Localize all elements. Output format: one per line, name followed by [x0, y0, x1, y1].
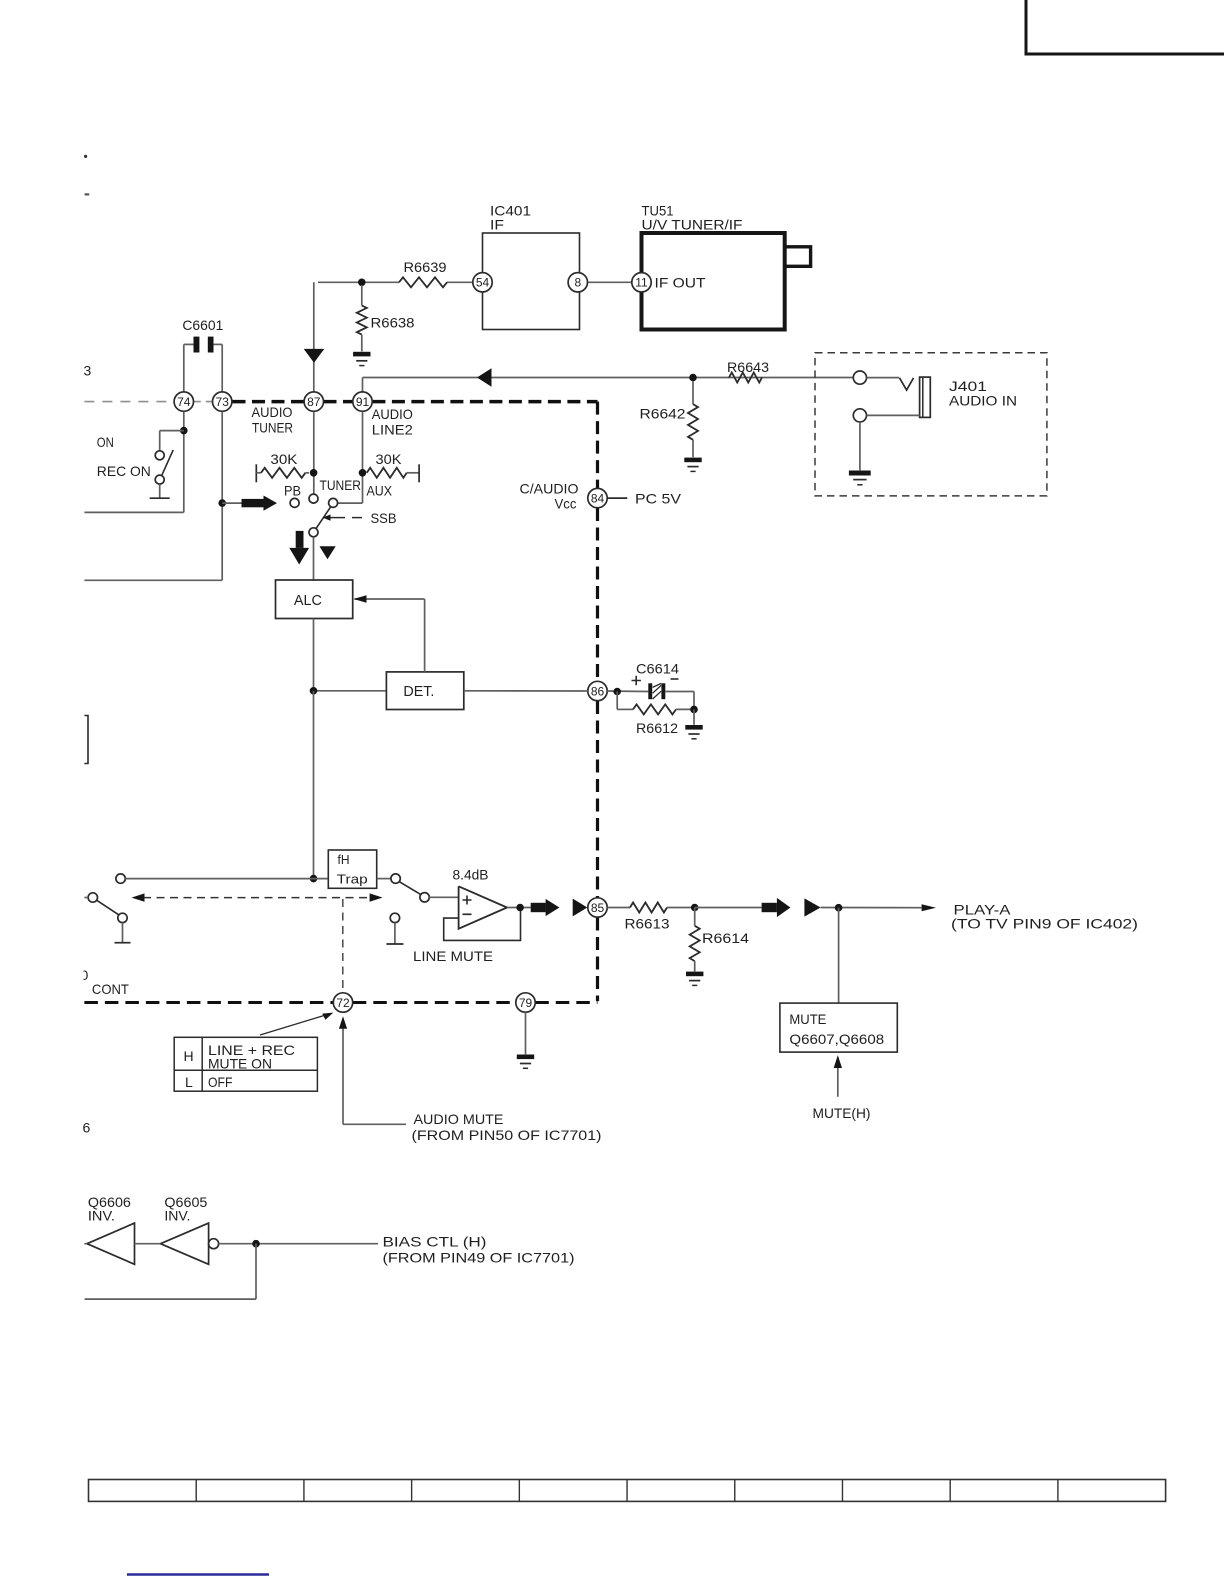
wire pin 84 to PC 5V: [608, 491, 682, 507]
capacitor C6601: [182, 317, 223, 392]
wire to PLAY-A: [821, 907, 922, 909]
J401 plug tip symbol (V): [867, 378, 914, 390]
resistor R6643: [727, 359, 769, 383]
svg-text:8: 8: [574, 276, 581, 290]
wire pin 91 to AUX contact: [338, 412, 363, 504]
wire AUDIO MUTE to pin 72: [339, 1016, 406, 1124]
pin 11 of TU51 (IF OUT): [632, 273, 706, 292]
svg-text:PC 5V: PC 5V: [635, 491, 682, 507]
wire to op-amp input: [429, 896, 458, 898]
left bypass switch: [84, 893, 130, 943]
svg-text:ALC: ALC: [294, 593, 322, 609]
svg-text:TUNER: TUNER: [320, 477, 362, 493]
signal flow thick arrow into ALC: [289, 531, 309, 565]
svg-text:TUNER: TUNER: [252, 420, 293, 436]
svg-text:R6614: R6614: [702, 930, 749, 946]
wire DET to pin 86: [464, 690, 588, 692]
wire pin 87 to TUNER contact: [313, 412, 315, 494]
cut-off bracket at left edge: [84, 716, 88, 764]
dashed record-path arrow line: [132, 893, 383, 901]
signal flow thick arrow to output: [762, 898, 791, 917]
transistor Q6606 inverter: [84, 1194, 134, 1264]
wire ALC to DET line: [314, 619, 387, 691]
cut-off character 3: [84, 363, 92, 379]
block ALC: [276, 580, 353, 619]
svg-text:85: 85: [591, 901, 605, 915]
SSB pointer: [323, 510, 397, 526]
svg-text:79: 79: [519, 996, 533, 1010]
svg-text:MUTE(H): MUTE(H): [813, 1105, 871, 1121]
wire pin8 to pin11: [588, 281, 633, 283]
svg-text:AUDIO IN: AUDIO IN: [949, 393, 1017, 409]
selector contact PB: [290, 498, 299, 507]
svg-text:R6613: R6613: [625, 916, 670, 932]
J401 wiring: [860, 415, 920, 470]
wire C6614 to ground node: [665, 692, 694, 710]
cut-off character near CONT: [76, 964, 89, 984]
connector J401 dashed box: [815, 353, 1047, 496]
J401 jack body: [920, 377, 931, 417]
wire BIAS CTL net: [219, 1243, 378, 1245]
signal flow arrow toward pin 91: [477, 368, 492, 386]
svg-text:REC ON: REC ON: [97, 463, 151, 479]
svg-text:6: 6: [83, 1120, 91, 1136]
wire ALC/DET node down to trap line: [313, 691, 315, 879]
node junction at op-amp output: [516, 904, 524, 912]
resistor R6613: [625, 903, 695, 932]
feedback wire DET to ALC: [355, 599, 425, 672]
pin 85: [588, 898, 607, 917]
svg-text:SSB: SSB: [371, 510, 397, 526]
svg-text:C6601: C6601: [182, 317, 223, 333]
wire to mute node: [695, 907, 762, 909]
svg-text:(FROM PIN50 OF IC7701): (FROM PIN50 OF IC7701): [412, 1127, 602, 1143]
signal flow small arrow to pin 85: [573, 899, 588, 917]
cut-off character 6: [83, 1120, 91, 1136]
line mute lower contact: [386, 913, 403, 944]
svg-text:30K: 30K: [376, 451, 403, 467]
line mute switch wiper: [399, 882, 429, 902]
wire between inverters: [135, 1243, 161, 1245]
svg-text:PB: PB: [284, 483, 301, 499]
thin dashed stub left of pin 74: [84, 401, 174, 403]
block MUTE Q6607,Q6608: [780, 1003, 897, 1052]
signal flow arrow into pin 87: [304, 349, 325, 363]
wire BIAS CTL branch down-left: [85, 1244, 256, 1299]
net label MUTE(H): [813, 1105, 871, 1121]
revision table (bottom): [89, 1480, 1166, 1502]
J401 jack tip contact: [853, 371, 866, 384]
resistor 30K (AUX side): [367, 451, 419, 482]
tuner TU51 box: [642, 203, 785, 330]
ground at J401: [849, 471, 871, 485]
block DET: [386, 672, 463, 710]
svg-text:MUTE ON: MUTE ON: [208, 1056, 272, 1072]
net label BIAS CTL: [383, 1234, 575, 1266]
TU51 connector tab: [785, 247, 811, 266]
svg-text:30K: 30K: [270, 451, 298, 467]
arrowhead PLAY-A: [922, 904, 936, 911]
node junction at pin 86 net: [613, 688, 621, 696]
pin 84 (C/AUDIO Vcc): [520, 481, 608, 512]
node junction above MUTE block: [835, 904, 843, 912]
svg-text:LINE2: LINE2: [372, 422, 413, 438]
wire to MUTE block: [838, 908, 840, 1003]
C/AUDIO hybrid IC dashed boundary top edge: [233, 400, 598, 404]
net label PLAY-A: [951, 902, 1138, 932]
svg-text:AUDIO: AUDIO: [372, 406, 413, 422]
svg-text:86: 86: [591, 684, 605, 698]
ground at pin 79: [517, 1055, 534, 1069]
svg-text:INV.: INV.: [88, 1208, 115, 1224]
wire pole to ALC: [313, 537, 315, 580]
wire AUDIO LINE2 net to J401: [363, 378, 854, 393]
block fH Trap: [328, 850, 376, 888]
pin 74: [174, 392, 193, 411]
op-amp 8.4dB line amplifier: [453, 867, 508, 929]
svg-text:ON: ON: [97, 434, 114, 450]
node junction on pin74 branch: [180, 427, 188, 435]
pin 86: [588, 681, 607, 700]
svg-text:(TO TV PIN9 OF IC402): (TO TV PIN9 OF IC402): [951, 916, 1138, 932]
signal flow thick arrow to PB: [222, 496, 277, 511]
node junction on trap line: [310, 875, 318, 883]
svg-text:AUDIO: AUDIO: [252, 404, 293, 420]
pin 8 of IC401: [568, 273, 587, 292]
dashed branch to pin 72: [342, 899, 344, 993]
svg-text:73: 73: [216, 395, 230, 409]
signal flow thick arrow to pin 85: [531, 899, 560, 916]
wire pin 79 to ground: [525, 1012, 527, 1054]
pin 72: [333, 993, 352, 1012]
pin 91 (AUDIO LINE2): [353, 392, 413, 438]
transistor Q6605 inverter: [161, 1194, 219, 1264]
trap line left contact: [116, 874, 328, 883]
selector contact SSB (pole): [309, 528, 318, 537]
svg-text:H: H: [184, 1048, 194, 1064]
signal flow small arrow to output: [804, 898, 820, 916]
node junction right 30K: [359, 469, 367, 477]
blue footer line: [127, 1573, 269, 1575]
signal flow small arrow into ALC: [319, 546, 335, 559]
svg-text:Vcc: Vcc: [555, 496, 577, 512]
svg-text:Trap: Trap: [337, 872, 368, 887]
resistor R6639: [399, 259, 447, 287]
node junction under ALC: [310, 687, 318, 695]
resistor R6638: [357, 285, 415, 351]
svg-text:DET.: DET.: [403, 684, 434, 700]
svg-text:91: 91: [356, 395, 370, 409]
selector labels: [284, 477, 393, 499]
node junction on BIAS CTL: [252, 1240, 260, 1248]
ground at R6638: [353, 352, 370, 366]
svg-text:BIAS CTL (H): BIAS CTL (H): [383, 1234, 487, 1250]
truth table H/L for mute: [174, 1037, 317, 1091]
svg-text:OFF: OFF: [208, 1074, 233, 1090]
svg-text:U/V TUNER/IF: U/V TUNER/IF: [642, 217, 743, 233]
pointer from table to pin 72: [260, 1013, 333, 1035]
IC IC401 (IF) box: [483, 203, 580, 330]
svg-text:MUTE: MUTE: [789, 1011, 826, 1027]
node junction left 30K: [310, 469, 318, 477]
node junction at R6614 top: [691, 904, 699, 912]
node junction on pin73 branch: [218, 499, 226, 507]
MUTE(H) input arrow: [834, 1055, 842, 1097]
ground at R6612: [685, 709, 702, 738]
svg-text:R6643: R6643: [727, 359, 769, 375]
stray page mark dot: [84, 155, 87, 158]
svg-text:87: 87: [307, 395, 321, 409]
pin 54 of IC401: [473, 273, 492, 292]
svg-text:LINE MUTE: LINE MUTE: [413, 948, 493, 964]
wire pin 86 to C6614: [607, 690, 648, 693]
wire pin 85 to R6613: [607, 907, 630, 909]
svg-text:AUX: AUX: [367, 483, 393, 499]
pin 73: [213, 392, 232, 411]
resistor R6642: [640, 381, 699, 457]
svg-text:Q6607,Q6608: Q6607,Q6608: [789, 1031, 884, 1047]
svg-text:IF OUT: IF OUT: [655, 275, 706, 291]
ground at R6614: [686, 972, 703, 986]
svg-text:84: 84: [591, 491, 605, 505]
node junction at R6642 top: [689, 374, 697, 382]
wire pin 74 to pin 73: [194, 401, 213, 403]
node junction at R6638 top: [358, 279, 366, 287]
wire pin54 net (junction to R6639 to pin54): [318, 281, 473, 283]
selector contact AUX: [329, 498, 338, 507]
svg-text:C6614: C6614: [636, 661, 679, 677]
resistor R6612: [617, 692, 694, 737]
arrowhead into ALC: [354, 595, 367, 603]
svg-text:INV.: INV.: [164, 1208, 190, 1224]
selector contact TUNER: [309, 494, 318, 503]
svg-text:C/AUDIO: C/AUDIO: [520, 481, 579, 497]
C/AUDIO hybrid IC dashed boundary bottom edge: [84, 1001, 597, 1004]
text CONT: [92, 981, 129, 997]
pin 79: [516, 993, 535, 1012]
title block corner box (page corner): [1026, 0, 1224, 54]
svg-text:8.4dB: 8.4dB: [453, 867, 489, 883]
J401 jack ring contact: [853, 409, 866, 422]
capacitor C6614 (electrolytic): [632, 661, 680, 700]
wire junction to pin 87: [313, 282, 315, 392]
trap line right contact: [377, 874, 401, 883]
svg-text:IF: IF: [490, 217, 504, 233]
svg-text:11: 11: [635, 276, 648, 290]
wire pin 74 branch: [84, 412, 183, 513]
node junction at R6612 right: [690, 706, 698, 714]
C/AUDIO hybrid IC dashed boundary right edge: [596, 402, 599, 1002]
feedback loop LINE MUTE: [413, 908, 521, 965]
resistor 30K (PB side): [256, 451, 309, 482]
svg-text:L: L: [185, 1074, 193, 1090]
svg-text:72: 72: [336, 996, 350, 1010]
net label AUDIO MUTE: [412, 1111, 602, 1143]
svg-text:fH: fH: [338, 852, 350, 867]
svg-text:AUDIO MUTE: AUDIO MUTE: [414, 1111, 504, 1127]
ground at R6642: [684, 458, 701, 472]
svg-text:R6638: R6638: [371, 315, 415, 331]
svg-text:74: 74: [177, 395, 191, 409]
svg-text:54: 54: [476, 276, 490, 290]
svg-text:CONT: CONT: [92, 981, 129, 997]
svg-text:3: 3: [84, 363, 92, 379]
svg-text:R6639: R6639: [404, 259, 447, 275]
svg-text:R6612: R6612: [636, 720, 678, 736]
resistor R6614: [690, 908, 750, 972]
switch REC ON: [97, 431, 184, 499]
wire pin 73 branch: [84, 412, 222, 581]
svg-text:R6642: R6642: [640, 406, 686, 422]
stray page mark dash: [85, 193, 90, 195]
pin 87 (AUDIO TUNER): [252, 392, 324, 436]
svg-text:(FROM PIN49 OF IC7701): (FROM PIN49 OF IC7701): [383, 1250, 575, 1266]
selector wiper arm: [316, 507, 331, 529]
wire op-amp output: [507, 907, 531, 909]
